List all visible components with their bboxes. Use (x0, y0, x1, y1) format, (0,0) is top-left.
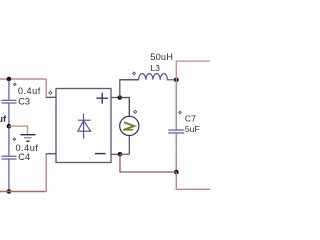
node junction plus output (118, 95, 123, 100)
wire plus-to-inductor (120, 80, 139, 98)
wire bottom-right to edge (176, 172, 210, 189)
wire bottom-left horizontal net (0, 191, 46, 193)
svg-text:50uH: 50uH (150, 52, 173, 62)
node junction mid-left (7, 124, 12, 129)
svg-text:uf: uf (0, 114, 7, 124)
bridge input lead upper (46, 96, 56, 98)
wire right vertical lower (175, 133, 177, 172)
bridge rectifier U1 box (56, 89, 111, 163)
marker near inductor (133, 72, 136, 75)
bridge plus output lead (111, 97, 120, 99)
ammeter bottom lead (128, 136, 130, 155)
node junction inductor right (174, 77, 179, 82)
node junction bottom-left (7, 189, 12, 194)
svg-text:L3: L3 (150, 63, 160, 73)
bridge minus mark (95, 153, 106, 155)
svg-text:C4: C4 (18, 152, 30, 162)
marker near ammeter (134, 110, 137, 113)
capacitor C4 (2, 126, 17, 191)
marker near C4 (13, 138, 16, 141)
bridge input lead lower (46, 153, 56, 155)
svg-text:C7: C7 (185, 113, 196, 123)
wire left input drop to bridge (45, 79, 47, 97)
wire minus junction to bottom-right junction (120, 154, 176, 172)
svg-text:C3: C3 (18, 96, 30, 106)
wire to ground (9, 126, 28, 134)
inductor L3 (121, 74, 177, 80)
wire plus-to-ammeter (120, 98, 130, 117)
capacitor C7 (168, 130, 184, 133)
bridge minus output lead (111, 153, 120, 155)
marker bridge top-left (49, 91, 52, 94)
node junction minus output (118, 152, 123, 157)
ammeter U2 (120, 116, 139, 135)
capacitor C3 (2, 80, 17, 126)
wire top-right to edge (176, 61, 210, 80)
svg-text:5uF: 5uF (185, 124, 200, 134)
bridge plus mark (96, 93, 108, 104)
node junction top-left (7, 77, 12, 82)
svg-text:0.4uf: 0.4uf (18, 86, 41, 96)
wire right vertical upper (175, 80, 177, 130)
diode inside bridge (78, 114, 91, 139)
wire left input rise to bridge (45, 155, 47, 192)
ammeter arrow (124, 123, 135, 130)
wire ammeter to minus junction (120, 153, 129, 155)
marker near C3 (13, 83, 16, 86)
node junction bottom-right (174, 170, 179, 175)
marker near C7 (179, 111, 182, 114)
ground symbol (20, 135, 35, 142)
wire top-left horizontal net (0, 78, 46, 80)
